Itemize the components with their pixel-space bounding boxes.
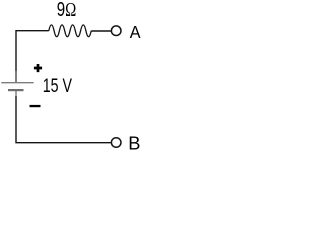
battery V1 short negative plate [8,89,24,91]
svg-text:9Ω: 9Ω [57,0,76,21]
terminal A open circle [111,26,121,36]
wire: battery - terminal down and across bottom to terminal B [16,96,111,143]
battery V1 long positive plate [1,82,33,84]
battery V1 gray lead below negative plate [15,91,17,97]
resistor R1 coil body [49,25,91,37]
wire: battery + terminal up and across to resistor left lead [16,31,49,82]
battery - polarity mark [30,105,41,107]
battery V1 gray lead above positive plate [15,71,17,82]
wire: resistor right lead to terminal A [91,30,111,32]
battery + polarity mark [34,64,42,72]
svg-text:B: B [128,133,140,154]
svg-text:A: A [130,22,141,42]
terminal B open circle [111,138,121,148]
svg-text:15 V: 15 V [43,75,73,97]
